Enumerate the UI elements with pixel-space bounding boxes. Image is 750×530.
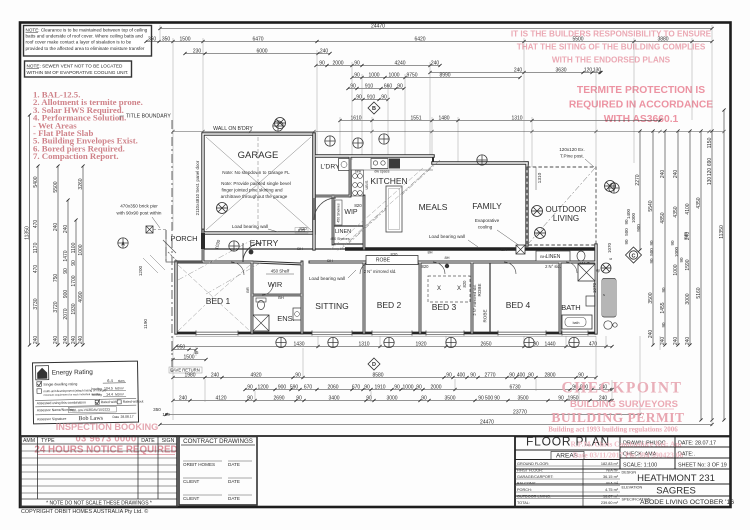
svg-text:GROUND FLOOR:: GROUND FLOOR: [517, 462, 549, 466]
svg-text:roof cover make contact a laye: roof cover make contact a layer of sisal… [26, 40, 132, 45]
svg-text:90: 90 [350, 83, 356, 89]
wall wir-ens [252, 294, 302, 297]
svg-text:provided to the affected area: provided to the affected area to elimina… [26, 46, 145, 51]
wall step [432, 156, 434, 163]
svg-text:3730: 3730 [33, 298, 39, 309]
svg-text:1070: 1070 [607, 242, 612, 253]
svg-text:1190: 1190 [143, 319, 148, 329]
svg-text:1310: 1310 [537, 172, 543, 183]
entry ceiling dash lines [178, 240, 262, 294]
svg-text:2110x4810 Sect. panel door: 2110x4810 Sect. panel door [195, 160, 200, 215]
title boundary dashed line [166, 120, 172, 372]
svg-text:1551: 1551 [410, 115, 421, 121]
dimension chain bottom row4 [243, 388, 613, 391]
svg-text:Note: No stepdown to Garage FL: Note: No stepdown to Garage FL [222, 170, 290, 175]
svg-text:400: 400 [457, 372, 466, 378]
wall sitting-bed2 [363, 262, 366, 333]
entry door [243, 243, 262, 262]
wall load bearing meals [345, 247, 596, 250]
svg-text:Building act 1993 building reg: Building act 1993 building regulations 2… [548, 426, 678, 434]
svg-text:90: 90 [421, 395, 427, 401]
svg-text:BH: BH [297, 246, 303, 251]
svg-text:BATH: BATH [561, 303, 580, 312]
svg-text:90: 90 [478, 395, 484, 401]
svg-text:2690: 2690 [273, 395, 284, 401]
svg-text:3260: 3260 [78, 178, 84, 189]
svg-text:90: 90 [446, 372, 452, 378]
svg-text:4100: 4100 [685, 203, 691, 214]
wall left outer [174, 262, 177, 333]
svg-text:FIRST FLOOR:: FIRST FLOOR: [517, 468, 543, 472]
svg-text:03 9673 0000: 03 9673 0000 [76, 433, 137, 444]
ldry trough [339, 159, 350, 171]
dimension chain bottom 950 [171, 348, 197, 351]
marker outdoor right [605, 181, 616, 192]
svg-text:PORCH: PORCH [170, 234, 197, 243]
wall ldry right [349, 156, 352, 196]
svg-text:820: 820 [391, 252, 399, 257]
marker outdoor 2 [535, 228, 546, 239]
svg-text:240: 240 [320, 48, 329, 54]
svg-text:150: 150 [162, 412, 170, 417]
svg-text:NOTE: SEWER VENT NOT TO BE LOC: NOTE: SEWER VENT NOT TO BE LOCATED [27, 64, 124, 69]
svg-text:240: 240 [71, 336, 77, 345]
svg-text:1500: 1500 [183, 354, 194, 360]
dimension chain left a [36, 164, 39, 346]
porch pier [146, 226, 153, 233]
wall bed1-wir [251, 262, 254, 333]
svg-text:90: 90 [356, 94, 362, 100]
svg-text:6420: 6420 [414, 36, 425, 42]
dimension chain bottom row3 [171, 376, 597, 379]
svg-text:90: 90 [416, 384, 422, 390]
svg-text:5540: 5540 [648, 200, 654, 211]
marker wc [601, 263, 611, 273]
svg-text:900: 900 [63, 290, 69, 299]
svg-text:24470: 24470 [480, 419, 494, 425]
svg-text:90: 90 [661, 322, 666, 328]
svg-text:24 HOURS NOTICE REQUIRED: 24 HOURS NOTICE REQUIRED [34, 445, 177, 456]
dimension chain right 5540 [651, 129, 654, 346]
wall family right [525, 163, 528, 245]
dimension chain bottom 1500 [171, 358, 207, 361]
dimension chain top row4b [428, 71, 602, 74]
svg-text:ROBE: ROBE [477, 283, 482, 296]
svg-text:104.5: 104.5 [104, 387, 113, 391]
svg-text:WITH AS3660.1: WITH AS3660.1 [604, 114, 679, 125]
svg-text:2770: 2770 [484, 372, 495, 378]
title block top line [20, 435, 731, 437]
svg-text:950: 950 [177, 344, 186, 350]
outdoor living dashed boundary [527, 167, 596, 245]
svg-text:6000: 6000 [256, 48, 267, 54]
svg-text:LINEN: LINEN [335, 229, 351, 235]
wall garage right lower [312, 134, 315, 249]
svg-text:TITLE BOUNDARY: TITLE BOUNDARY [126, 114, 171, 120]
svg-text:240: 240 [78, 336, 84, 345]
service marker top [273, 121, 283, 131]
svg-text:5400: 5400 [33, 176, 39, 187]
porch slab [163, 230, 203, 264]
svg-text:670: 670 [304, 384, 313, 390]
svg-text:9750: 9750 [406, 72, 417, 78]
svg-text:820: 820 [354, 203, 362, 208]
svg-text:ENS.: ENS. [277, 314, 295, 323]
marker outdoor 1 [532, 206, 543, 217]
svg-text:WITH THE ENDORSED PLANS: WITH THE ENDORSED PLANS [552, 56, 671, 65]
svg-text:WITHIN 5M OF EVAPORATIVE COOLI: WITHIN 5M OF EVAPORATIVE COOLING UNIT. [27, 70, 129, 75]
marker A [118, 238, 128, 248]
svg-text:240: 240 [53, 223, 59, 232]
ens shower [253, 315, 269, 331]
svg-text:1430: 1430 [293, 341, 304, 347]
note box sewer vent [25, 61, 132, 77]
svg-text:FAMILY: FAMILY [472, 201, 502, 211]
svg-text:1455: 1455 [660, 302, 666, 313]
svg-text:1400: 1400 [626, 208, 631, 219]
window marker bottom [524, 337, 534, 347]
service marker top [325, 136, 335, 146]
svg-text:2270: 2270 [635, 174, 641, 185]
svg-text:batts and underside of roof co: batts and underside of roof cover. Where… [26, 34, 144, 39]
linen2 [536, 251, 570, 261]
svg-text:8H: 8H [427, 250, 432, 255]
svg-text:90: 90 [364, 384, 370, 390]
svg-text:90: 90 [624, 239, 629, 245]
dimension chain top 24470 [158, 27, 713, 30]
bed1 ceiling diagonals [178, 265, 250, 331]
wall bed2-bed3 [419, 262, 422, 333]
svg-text:240: 240 [673, 170, 679, 179]
svg-text:240: 240 [63, 225, 69, 234]
svg-text:1590: 1590 [685, 259, 691, 270]
svg-text:450 Shelves: 450 Shelves [330, 237, 350, 241]
svg-text:1000: 1000 [388, 72, 399, 78]
bedroom door arcs [231, 262, 577, 295]
svg-text:1000: 1000 [402, 384, 413, 390]
svg-text:14.4: 14.4 [106, 393, 113, 397]
svg-text:Date: Date [112, 415, 119, 419]
svg-text:90: 90 [354, 72, 360, 78]
svg-text:SITTING: SITTING [315, 301, 349, 311]
svg-text:1500: 1500 [179, 36, 190, 42]
svg-text:90: 90 [63, 268, 69, 274]
svg-text:B: B [372, 106, 376, 112]
svg-text:90: 90 [354, 60, 360, 66]
svg-text:Assessor Name/Number: Assessor Name/Number [37, 408, 75, 413]
svg-text:* NOTE DO NOT SCALE THESE DRAW: * NOTE DO NOT SCALE THESE DRAWINGS * [46, 501, 152, 507]
wip shelves [335, 200, 342, 225]
garage roof diagonals [206, 137, 311, 230]
svg-text:450 Shelves: 450 Shelves [337, 203, 341, 223]
svg-text:90: 90 [296, 395, 302, 401]
dimension chain right 2270 [638, 129, 641, 251]
dimension chain left e [81, 164, 84, 346]
svg-text:THAT THE SITING OF THE BUILDIN: THAT THE SITING OF THE BUILDING COMPLIES [517, 43, 706, 52]
section marker B [368, 102, 380, 114]
svg-text:BH: BH [327, 258, 333, 263]
svg-text:N/A m²: N/A m² [606, 481, 618, 485]
svg-text:NOTE: Clearance is to be maint: NOTE: Clearance is to be maintained betw… [26, 28, 148, 33]
svg-text:UB/S: UB/S [365, 180, 369, 189]
svg-text:240: 240 [660, 170, 666, 179]
svg-text:Load bearing wall: Load bearing wall [429, 234, 465, 239]
svg-text:5500: 5500 [53, 181, 59, 192]
svg-text:DATE: DATE [228, 479, 240, 484]
svg-text:1170: 1170 [33, 242, 39, 253]
svg-text:90: 90 [247, 395, 253, 401]
svg-text:3630: 3630 [555, 67, 566, 73]
svg-text:450 Shelf: 450 Shelf [271, 269, 290, 274]
svg-text:90: 90 [509, 372, 515, 378]
svg-text:LINEN: LINEN [546, 254, 561, 260]
pantry shelves [352, 170, 364, 196]
service marker top [609, 183, 619, 193]
svg-text:5500: 5500 [572, 36, 583, 42]
svg-text:DATE: DATE [141, 438, 155, 444]
svg-text:1700: 1700 [71, 275, 77, 286]
svg-text:3000: 3000 [386, 395, 397, 401]
svg-text:4.75 m²: 4.75 m² [605, 488, 619, 492]
window marker bottom [569, 337, 579, 347]
svg-text:240: 240 [33, 336, 39, 345]
svg-text:350: 350 [153, 407, 161, 412]
svg-text:X: X [457, 286, 461, 292]
svg-text:Note: Provide painted single b: Note: Provide painted single bevel [221, 181, 291, 186]
red stamp termite protection [569, 85, 713, 125]
svg-text:CHECKPOINT: CHECKPOINT [562, 380, 683, 397]
svg-text:240: 240 [683, 232, 688, 240]
dimension chain right 4350b [699, 129, 702, 421]
amendments table [21, 437, 177, 507]
svg-text:WIP: WIP [344, 209, 358, 216]
svg-text:4240: 4240 [394, 60, 405, 66]
dimension chain top row5 [350, 76, 521, 79]
bath basin [586, 296, 595, 306]
svg-text:90: 90 [71, 260, 77, 266]
svg-text:L'DRY: L'DRY [320, 164, 340, 171]
svg-text:24470: 24470 [371, 23, 385, 29]
svg-text:1470: 1470 [63, 250, 69, 261]
svg-text:A: A [121, 242, 125, 248]
walls double-line pass [176, 134, 596, 333]
svg-text:MEALS: MEALS [419, 202, 448, 212]
dimension chain bottom row7 [158, 423, 713, 426]
svg-text:4350: 4350 [673, 206, 679, 217]
svg-text:Single dwelling rating: Single dwelling rating [43, 382, 77, 387]
svg-text:90: 90 [397, 83, 403, 89]
svg-text:TYPE: TYPE [41, 438, 55, 444]
dimension chain right 1150 [710, 129, 713, 421]
svg-text:GARAGE/CARPORT:: GARAGE/CARPORT: [517, 475, 553, 479]
service marker top [353, 138, 363, 148]
svg-text:BH: BH [278, 295, 284, 300]
dimension chain left b [56, 164, 59, 346]
kitchen bench line [340, 169, 433, 171]
svg-text:SCALE: 1:100: SCALE: 1:100 [623, 463, 657, 469]
svg-text:1440: 1440 [544, 341, 555, 347]
robe bed3 dashed [428, 276, 470, 302]
svg-text:90: 90 [649, 258, 654, 264]
svg-text:REQUIRED IN ACCORDANCE: REQUIRED IN ACCORDANCE [569, 100, 713, 111]
svg-text:90: 90 [578, 372, 584, 378]
svg-text:2800: 2800 [544, 372, 555, 378]
svg-text:90: 90 [649, 240, 654, 246]
wall linen bottom [333, 243, 364, 245]
wall top meals-family [433, 161, 527, 165]
energy rating box [32, 361, 143, 424]
svg-text:750: 750 [53, 274, 59, 283]
dimension chain top row4a [314, 64, 441, 67]
svg-text:2 N° mirrored sld.: 2 N° mirrored sld. [472, 284, 477, 315]
svg-text:1910: 1910 [374, 384, 385, 390]
svg-text:1310: 1310 [511, 115, 522, 121]
svg-text:WIR: WIR [268, 280, 283, 289]
svg-text:23770: 23770 [513, 409, 527, 415]
svg-text:6.4: 6.4 [107, 378, 113, 383]
svg-text:SHEET No: 3 OF 19: SHEET No: 3 OF 19 [678, 463, 727, 469]
svg-text:Load bearing wall: Load bearing wall [309, 276, 345, 281]
wall bed1 top [176, 261, 252, 264]
svg-text:900: 900 [636, 224, 641, 232]
robe sitting/bed2 [366, 256, 418, 265]
svg-text:LIVING: LIVING [553, 214, 579, 223]
dimension chain left d [74, 218, 77, 346]
svg-text:240: 240 [53, 336, 59, 345]
dimension chain right 4850 [663, 129, 666, 346]
svg-text:11350: 11350 [719, 225, 725, 239]
svg-text:11350: 11350 [24, 226, 30, 240]
svg-text:900: 900 [278, 384, 287, 390]
dimension chain top row6 [346, 87, 405, 90]
ens toilet [258, 301, 265, 310]
window marker bottom [384, 337, 394, 347]
svg-text:2070: 2070 [63, 308, 69, 319]
svg-text:1920: 1920 [415, 341, 426, 347]
svg-text:1100: 1100 [71, 242, 77, 253]
island bench [386, 186, 402, 232]
svg-text:heating: heating [91, 387, 102, 391]
svg-text:CLIENT: CLIENT [183, 479, 200, 484]
dimension chain left 11350 [28, 113, 31, 346]
svg-text:BH: BH [501, 247, 507, 252]
dimension chain top row7 [352, 98, 389, 101]
svg-text:8580: 8580 [372, 372, 383, 378]
svg-text:Date 03/11/2017 Ph: 394 59042: Date 03/11/2017 Ph: 394 590423 06 [573, 451, 684, 460]
svg-text:820: 820 [422, 264, 430, 269]
svg-text:INSPECTION BOOKING: INSPECTION BOOKING [56, 422, 159, 432]
porch pier wall dark [201, 233, 205, 249]
svg-text:stars: stars [118, 379, 125, 383]
svg-text:910: 910 [365, 83, 374, 89]
svg-text:BED 4: BED 4 [506, 300, 531, 310]
svg-text:590: 590 [290, 384, 299, 390]
pier marker [217, 203, 228, 214]
wall wir-sitting [301, 262, 304, 333]
window marker bottom [446, 337, 456, 347]
svg-text:ROBE: ROBE [483, 309, 488, 322]
svg-text:CLIENT: CLIENT [183, 496, 200, 501]
svg-text:TOTAL:: TOTAL: [517, 501, 530, 505]
svg-text:dp: dp [596, 268, 601, 273]
svg-text:470: 470 [33, 220, 39, 229]
svg-text:28.08.17: 28.08.17 [120, 415, 133, 419]
svg-text:2060: 2060 [327, 384, 338, 390]
svg-text:4920: 4920 [250, 372, 261, 378]
svg-text:BH: BH [540, 254, 546, 259]
svg-text:architrave throughout the gara: architrave throughout the garage [221, 194, 288, 199]
svg-text:1310: 1310 [358, 341, 369, 347]
contract drawings box [179, 437, 257, 506]
wall right outer [594, 245, 597, 333]
svg-text:GARAGE: GARAGE [238, 150, 279, 161]
dimension chain bottom row5 [171, 399, 613, 402]
wall bed4-bath [559, 262, 562, 333]
svg-text:910: 910 [367, 94, 376, 100]
svg-text:cooling: cooling [92, 393, 102, 397]
svg-text:cooling: cooling [478, 225, 493, 230]
svg-text:470x350 brick pier: 470x350 brick pier [120, 204, 158, 209]
note box ceiling batts [24, 26, 152, 57]
svg-text:90: 90 [394, 384, 400, 390]
svg-text:2000: 2000 [430, 384, 441, 390]
svg-text:240: 240 [660, 337, 666, 346]
svg-text:3500: 3500 [648, 292, 654, 303]
svg-text:2000: 2000 [332, 60, 343, 66]
svg-text:4090: 4090 [78, 291, 84, 302]
svg-text:SAGRES: SAGRES [656, 486, 696, 497]
svg-text:D: D [372, 362, 376, 368]
svg-text:R.P.M. Chris Cambashire Rel:: R.P.M. Chris Cambashire Rel: Am [570, 440, 682, 449]
svg-text:16.87 m²: 16.87 m² [603, 494, 619, 498]
svg-text:240: 240 [211, 372, 220, 378]
svg-text:PORCH:: PORCH: [517, 488, 532, 492]
svg-text:3500: 3500 [517, 395, 528, 401]
svg-text:3720: 3720 [53, 301, 59, 312]
wall wip left [332, 196, 335, 244]
wall top kitchen [316, 154, 433, 158]
svg-text:s: s [603, 292, 605, 297]
dimension chain top row2 [144, 40, 713, 43]
wall wir top [252, 262, 302, 264]
svg-text:820: 820 [462, 280, 467, 288]
dimension chain right 11350 [722, 108, 725, 421]
svg-text:WALL ON B'DRY: WALL ON B'DRY [213, 126, 253, 132]
svg-text:500: 500 [649, 248, 654, 256]
svg-text:90: 90 [670, 240, 675, 246]
svg-text:239.60 m²: 239.60 m² [601, 501, 619, 505]
svg-text:8990: 8990 [439, 72, 450, 78]
svg-text:36.15 m²: 36.15 m² [603, 475, 619, 479]
svg-text:BED 3: BED 3 [432, 302, 457, 312]
wall porch right [202, 230, 205, 262]
svg-text:6730: 6730 [509, 384, 520, 390]
right small dims cluster [607, 208, 688, 327]
svg-text:NatL.gov.VICBDAV/10/2223: NatL.gov.VICBDAV/10/2223 [70, 408, 110, 413]
kitchen diagonal lines [330, 168, 430, 252]
svg-text:BALCONY:: BALCONY: [517, 481, 536, 485]
svg-text:Rated without: Rated without [123, 399, 144, 403]
svg-text:OUTDOOR LIVING:: OUTDOOR LIVING: [517, 494, 551, 498]
svg-text:90: 90 [319, 60, 325, 66]
svg-text:90: 90 [470, 372, 476, 378]
svg-text:670: 670 [352, 384, 361, 390]
svg-text:240: 240 [648, 330, 654, 339]
svg-text:350: 350 [148, 36, 157, 42]
svg-text:820: 820 [298, 228, 306, 233]
svg-text:BR: BR [245, 287, 250, 293]
svg-text:3880: 3880 [657, 36, 668, 42]
